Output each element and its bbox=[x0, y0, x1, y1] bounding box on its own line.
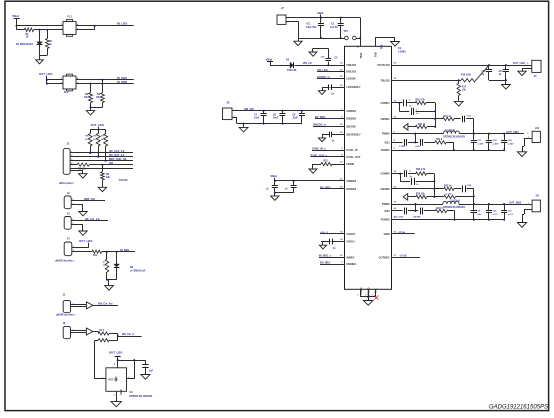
net OUT_LDO bbox=[39, 72, 53, 83]
diode D3 bbox=[286, 59, 297, 72]
net Y0 4.8V bbox=[118, 178, 127, 182]
svg-text:3: 3 bbox=[102, 378, 103, 380]
svg-text:u10n: u10n bbox=[415, 146, 421, 148]
junction bbox=[453, 149, 455, 151]
ground bbox=[502, 85, 511, 90]
svg-text:BS2: BS2 bbox=[385, 209, 391, 213]
junction bbox=[117, 335, 119, 337]
svg-text:IN_NEG: IN_NEG bbox=[120, 249, 129, 252]
svg-text:LDOOKDLY: LDOOKDLY bbox=[346, 85, 361, 89]
resistor R16 bbox=[461, 74, 476, 82]
wire bbox=[408, 126, 415, 128]
net +5_VW bbox=[392, 231, 415, 234]
pin numbers bbox=[358, 294, 374, 296]
junction bbox=[105, 160, 107, 162]
junction bbox=[488, 133, 490, 135]
svg-text:C13: C13 bbox=[499, 71, 504, 73]
svg-text:FBSW1: FBSW1 bbox=[381, 117, 391, 121]
wire bbox=[275, 192, 294, 194]
junction bbox=[433, 196, 435, 198]
svg-text:SYNC_IN: SYNC_IN bbox=[346, 148, 357, 152]
svg-text:J10: J10 bbox=[535, 127, 540, 130]
wire bbox=[116, 391, 118, 401]
svg-text:FBLDO: FBLDO bbox=[381, 78, 390, 82]
wire bbox=[356, 38, 360, 40]
connector J2 bbox=[64, 192, 73, 209]
wire bbox=[459, 133, 524, 135]
net EN_SW2 bbox=[320, 186, 345, 189]
junction bbox=[340, 37, 342, 39]
wire bbox=[368, 297, 370, 301]
resistor R21 bbox=[435, 139, 447, 144]
svg-text:VINSW1: VINSW1 bbox=[346, 109, 357, 113]
resistor R24 bbox=[416, 193, 427, 199]
net OUT_LDO bbox=[79, 239, 93, 247]
capacitor C22 bbox=[400, 170, 416, 178]
junction bbox=[274, 180, 276, 182]
wire bbox=[427, 173, 435, 175]
junction bbox=[90, 107, 92, 109]
svg-text:SYNC_OUT: SYNC_OUT bbox=[346, 155, 361, 159]
label part bbox=[56, 314, 76, 317]
wire bbox=[392, 204, 443, 206]
net IN_SW2 bbox=[117, 80, 128, 84]
wire bbox=[466, 119, 474, 134]
wire bbox=[71, 200, 105, 202]
resistor R26 bbox=[435, 208, 447, 213]
junction bbox=[274, 192, 276, 194]
junction bbox=[89, 152, 91, 154]
wire bbox=[459, 204, 524, 206]
wire bbox=[274, 193, 276, 196]
junction bbox=[16, 25, 18, 27]
ground bbox=[363, 301, 373, 306]
wire bbox=[90, 130, 105, 134]
wire bbox=[98, 146, 100, 157]
wire bbox=[454, 188, 461, 190]
net HB_LVL bbox=[85, 218, 100, 221]
wire bbox=[408, 142, 418, 144]
wire bbox=[522, 138, 532, 151]
wire bbox=[424, 142, 435, 144]
svg-text:GND: GND bbox=[120, 389, 123, 395]
wire bbox=[232, 110, 345, 112]
junction bbox=[359, 37, 361, 39]
net NRB_ON bbox=[84, 198, 95, 201]
wire bbox=[408, 196, 416, 198]
svg-text:COMP2: COMP2 bbox=[380, 172, 390, 176]
buffer arrow bbox=[86, 328, 93, 335]
svg-text:GRT4DCR-XXXXXX: GRT4DCR-XXXXXX bbox=[443, 135, 465, 138]
wire bbox=[76, 83, 134, 85]
U1 right pin numbers bbox=[394, 63, 397, 257]
diode D2 (zener) bbox=[114, 264, 146, 280]
net IN_SW1 bbox=[117, 76, 128, 80]
resistor R18 bbox=[415, 99, 425, 105]
net OUT_LDO bbox=[109, 350, 123, 354]
svg-text:GRT4DCR-XXXXXX: GRT4DCR-XXXXXX bbox=[443, 206, 465, 209]
svg-text:OUT_LDO: OUT_LDO bbox=[39, 72, 53, 76]
svg-text:S100 4B: S100 4B bbox=[287, 69, 297, 72]
resistor R17 bbox=[457, 80, 467, 95]
svg-text:10uF: 10uF bbox=[254, 118, 260, 120]
ground bbox=[309, 52, 317, 56]
wire bbox=[427, 196, 435, 198]
capacitor C1 bbox=[306, 18, 324, 38]
buffer arrow bbox=[86, 302, 93, 309]
wire bbox=[427, 126, 436, 128]
U1 left pin numbers bbox=[340, 63, 343, 264]
resistor R3 bbox=[84, 93, 93, 103]
wire bbox=[392, 118, 443, 120]
resistor R15 bbox=[313, 161, 345, 170]
svg-text:TAB: TAB bbox=[375, 52, 378, 57]
junction bbox=[473, 195, 475, 197]
svg-text:L2 4.7uH: L2 4.7uH bbox=[450, 200, 460, 203]
svg-text:+5 vw: +5 vw bbox=[398, 231, 405, 234]
svg-text:LS463: LS463 bbox=[398, 49, 406, 53]
junction bbox=[301, 110, 303, 112]
ground bbox=[309, 169, 317, 173]
svg-text:EPSON SG-8002CE: EPSON SG-8002CE bbox=[129, 395, 152, 398]
svg-text:R15: R15 bbox=[324, 161, 329, 163]
U1 left pin names bbox=[346, 63, 361, 266]
capacitor C13 bbox=[499, 65, 509, 80]
svg-text:u 6.3: u 6.3 bbox=[508, 214, 514, 216]
svg-text:R26 0: R26 0 bbox=[437, 208, 444, 210]
wire bbox=[89, 164, 133, 166]
svg-text:C 50V: C 50V bbox=[399, 146, 406, 148]
net INNEG bbox=[319, 255, 345, 258]
svg-text:R21 0: R21 0 bbox=[436, 139, 443, 141]
junction bbox=[90, 83, 92, 85]
svg-text:u 43V: u 43V bbox=[477, 143, 483, 146]
ground bbox=[391, 42, 400, 47]
svg-text:PGND2: PGND2 bbox=[381, 218, 390, 222]
svg-text:2: 2 bbox=[114, 394, 115, 396]
wire bbox=[109, 334, 118, 337]
capacitor C15 bbox=[412, 108, 420, 115]
wire bbox=[106, 252, 108, 259]
wire bbox=[105, 146, 107, 161]
svg-text:LDOOK: LDOOK bbox=[346, 76, 355, 80]
wire bbox=[102, 180, 104, 187]
wire bbox=[93, 332, 99, 334]
wire bbox=[360, 18, 362, 47]
net arrow FB1 bbox=[403, 124, 408, 130]
connector J1 bbox=[63, 142, 73, 175]
net BN_Cw_A bbox=[122, 333, 134, 336]
svg-text:VBIN: VBIN bbox=[383, 232, 389, 236]
svg-text:1uF: 1uF bbox=[149, 369, 154, 372]
wire bbox=[70, 152, 133, 154]
svg-text:VOOUT: VOOUT bbox=[346, 232, 356, 236]
ground bbox=[517, 223, 526, 228]
capacitor C4 bbox=[322, 84, 345, 95]
svg-text:1uF 4V: 1uF 4V bbox=[330, 26, 338, 29]
resistor R14 bbox=[98, 339, 109, 342]
oscillator U3 bbox=[102, 368, 129, 397]
resistor R9 bbox=[101, 172, 111, 180]
wire bbox=[454, 118, 461, 120]
capacitor C14 bbox=[399, 100, 415, 108]
svg-text:INNEG: INNEG bbox=[346, 255, 354, 259]
wire bbox=[286, 17, 360, 19]
capacitor C6 bbox=[321, 239, 345, 250]
op-amp U1 (main IC body) bbox=[345, 46, 392, 289]
wire bbox=[286, 21, 299, 38]
capacitor C23 bbox=[412, 178, 420, 186]
net OUT_NEG bbox=[392, 255, 421, 258]
junction bbox=[503, 133, 505, 135]
wire bbox=[71, 331, 87, 333]
ground bbox=[318, 138, 325, 142]
junction bbox=[97, 156, 99, 158]
net uP_INT bbox=[109, 162, 114, 165]
resistor R2 bbox=[46, 39, 53, 49]
svg-text:OUTNEG: OUTNEG bbox=[379, 255, 390, 259]
wire bbox=[458, 95, 460, 101]
svg-text:OUT GN: OUT GN bbox=[108, 379, 118, 382]
svg-text:HB_LVL_2.8: HB_LVL_2.8 bbox=[85, 218, 100, 221]
wire bbox=[90, 84, 92, 93]
junction bbox=[320, 17, 322, 19]
wire bbox=[392, 188, 444, 190]
resistor R25 bbox=[444, 194, 456, 199]
svg-text:SW1OKDLY: SW1OKDLY bbox=[346, 132, 361, 136]
svg-text:I2C_CLK_2.8: I2C_CLK_2.8 bbox=[109, 150, 125, 153]
svg-text:+2 uW: +2 uW bbox=[445, 194, 452, 196]
wire bbox=[392, 173, 401, 175]
svg-text:VBAT: VBAT bbox=[360, 52, 363, 59]
net IN_LDO bbox=[117, 22, 128, 26]
svg-text:FL2: FL2 bbox=[64, 91, 69, 94]
svg-text:R1 0: R1 0 bbox=[99, 330, 105, 332]
svg-text:10uF 50V: 10uF 50V bbox=[306, 26, 317, 29]
svg-text:U1: U1 bbox=[398, 46, 402, 50]
svg-text:OUT_LDO: OUT_LDO bbox=[513, 62, 525, 65]
junction bbox=[458, 79, 460, 81]
U1 top/bottom pin names bbox=[359, 52, 378, 297]
svg-text:INT: INT bbox=[109, 162, 114, 165]
junction bbox=[320, 37, 322, 39]
wire bbox=[298, 38, 345, 40]
capacitor C26 bbox=[486, 204, 498, 221]
junction bbox=[505, 79, 507, 81]
svg-text:VOUTLDO: VOUTLDO bbox=[377, 63, 390, 67]
junction bbox=[473, 203, 475, 205]
svg-text:R16 101k: R16 101k bbox=[461, 74, 472, 76]
capacitor C21 bbox=[415, 139, 423, 148]
svg-text:OUT_LDO: OUT_LDO bbox=[79, 239, 93, 243]
resistor R13 bbox=[98, 330, 109, 335]
svg-text:VINLDO: VINLDO bbox=[346, 63, 356, 67]
wire bbox=[400, 174, 410, 182]
wire bbox=[237, 123, 302, 125]
capacitor C11 bbox=[285, 181, 297, 193]
svg-text:VIN_LD: VIN_LD bbox=[303, 62, 312, 65]
wire bbox=[109, 336, 118, 341]
svg-text:EN/NEG: EN/NEG bbox=[346, 262, 356, 266]
junction bbox=[488, 203, 490, 205]
junction bbox=[117, 359, 119, 361]
resistor R23 bbox=[444, 186, 454, 191]
junction bbox=[340, 17, 342, 19]
wire bbox=[424, 210, 435, 212]
junction bbox=[106, 279, 108, 281]
resistor R7 bbox=[101, 134, 108, 147]
wire bbox=[47, 30, 49, 39]
junction bbox=[101, 79, 103, 81]
svg-text:VINSW2: VINSW2 bbox=[346, 179, 357, 183]
resistor R19 bbox=[443, 116, 454, 121]
wire bbox=[70, 170, 83, 173]
junction bbox=[263, 110, 265, 112]
net VBat bbox=[270, 174, 276, 178]
svg-text:VBat: VBat bbox=[12, 14, 19, 18]
label part bbox=[55, 260, 75, 263]
resistor R10 bbox=[92, 250, 102, 257]
capacitor C20 bbox=[142, 365, 153, 373]
junction bbox=[434, 110, 436, 112]
svg-text:EN_SW1: EN_SW1 bbox=[315, 116, 326, 119]
connector J6 bbox=[63, 322, 74, 339]
svg-text:IN_LDO: IN_LDO bbox=[117, 22, 128, 26]
wire bbox=[232, 117, 237, 123]
wire bbox=[118, 360, 146, 362]
svg-text:NRC_CHG_OK: NRC_CHG_OK bbox=[109, 158, 127, 161]
ground bbox=[141, 375, 150, 380]
junction bbox=[106, 251, 108, 253]
pin 24 VBAT bbox=[357, 45, 360, 48]
inductor L2 bbox=[443, 200, 465, 209]
junction bbox=[46, 29, 48, 31]
resistor R22 bbox=[416, 168, 427, 175]
junction bbox=[46, 79, 48, 81]
net VOOUT bbox=[320, 231, 345, 234]
svg-text:R11: R11 bbox=[93, 254, 98, 257]
capacitor C27 bbox=[501, 204, 513, 221]
no-connect X bbox=[374, 295, 378, 299]
svg-text:uBlox pHxt x: uBlox pHxt x bbox=[59, 182, 74, 185]
junction bbox=[434, 118, 436, 120]
svg-text:Y0/4.8V: Y0/4.8V bbox=[118, 178, 127, 182]
net OUT_LDO bbox=[513, 62, 525, 65]
jumper TP1 bbox=[344, 30, 357, 40]
wire bbox=[467, 189, 474, 205]
wire bbox=[392, 142, 403, 144]
wire bbox=[107, 280, 117, 286]
svg-text:IN_SW2: IN_SW2 bbox=[117, 80, 128, 84]
svg-text:IN_SW1: IN_SW1 bbox=[117, 76, 128, 80]
svg-text:R19 1k: R19 1k bbox=[444, 116, 452, 118]
net OUT_SW1 bbox=[507, 131, 520, 134]
connector J5 bbox=[63, 293, 74, 312]
wire bbox=[392, 80, 459, 82]
svg-text:R20 1k: R20 1k bbox=[418, 124, 426, 126]
wire bbox=[70, 156, 133, 158]
label caps bbox=[394, 215, 421, 218]
svg-text:TAB: TAB bbox=[380, 45, 383, 50]
wire bbox=[70, 168, 133, 170]
node VBat bbox=[266, 58, 274, 66]
resistor R12 bbox=[103, 259, 109, 272]
wire bbox=[295, 65, 345, 67]
junction bbox=[414, 203, 416, 205]
junction bbox=[281, 110, 283, 112]
wire bbox=[34, 29, 63, 31]
svg-text:SYNC_OUT_x: SYNC_OUT_x bbox=[311, 154, 328, 157]
wire bbox=[415, 134, 417, 143]
junction bbox=[414, 133, 416, 135]
wire bbox=[145, 360, 147, 365]
svg-text:+5A_V: +5A_V bbox=[320, 231, 328, 234]
wire bbox=[361, 289, 376, 297]
net BN_Cw_Axt bbox=[98, 303, 112, 306]
wire bbox=[71, 205, 83, 212]
net VBat bbox=[317, 11, 323, 18]
svg-text:BN_Cw_A: BN_Cw_A bbox=[122, 333, 134, 336]
junction bbox=[473, 133, 475, 135]
wire bbox=[91, 103, 103, 111]
junction bbox=[367, 296, 369, 298]
junction bbox=[488, 64, 490, 66]
wire bbox=[47, 83, 63, 85]
resistor R20 bbox=[415, 124, 426, 129]
ground bbox=[111, 402, 121, 407]
resistor R8 bbox=[77, 163, 89, 170]
svg-text:COMP1: COMP1 bbox=[380, 101, 390, 105]
choke FL1 bbox=[61, 16, 80, 37]
svg-text:FL1: FL1 bbox=[68, 16, 73, 19]
svg-text:R17: R17 bbox=[462, 87, 467, 89]
resistor R4 bbox=[96, 93, 104, 103]
wire bbox=[426, 102, 436, 104]
wire bbox=[76, 25, 134, 27]
capacitor C7 bbox=[254, 111, 267, 125]
svg-text:SW1OK: SW1OK bbox=[346, 124, 356, 128]
connector J3 bbox=[64, 212, 73, 229]
capacitor C16 bbox=[463, 115, 472, 122]
capacitor C10 bbox=[266, 181, 278, 193]
junction bbox=[433, 180, 435, 182]
wire bbox=[522, 69, 532, 72]
ground bbox=[79, 212, 87, 216]
svg-text:OUT_SW1: OUT_SW1 bbox=[507, 131, 520, 134]
wire bbox=[116, 252, 118, 264]
net I2C_CLK bbox=[109, 150, 125, 153]
wire bbox=[392, 150, 505, 152]
ground bbox=[454, 101, 463, 106]
wire bbox=[243, 124, 245, 128]
pin TAB bbox=[374, 37, 396, 49]
wire bbox=[102, 251, 135, 253]
wire bbox=[392, 219, 505, 221]
junction bbox=[414, 210, 416, 212]
ground bbox=[86, 111, 94, 115]
net I2C_DAT bbox=[109, 154, 125, 157]
wire bbox=[489, 80, 506, 82]
svg-text:EN_SW2: EN_SW2 bbox=[320, 186, 331, 189]
svg-text:OUT_LDO: OUT_LDO bbox=[91, 123, 105, 127]
wire bbox=[17, 26, 25, 30]
junction bbox=[399, 173, 401, 175]
wire bbox=[47, 79, 63, 81]
svg-text:EN/LDO: EN/LDO bbox=[346, 70, 356, 74]
wire bbox=[435, 103, 437, 127]
wire bbox=[72, 247, 89, 249]
capacitor C20a bbox=[399, 139, 407, 148]
